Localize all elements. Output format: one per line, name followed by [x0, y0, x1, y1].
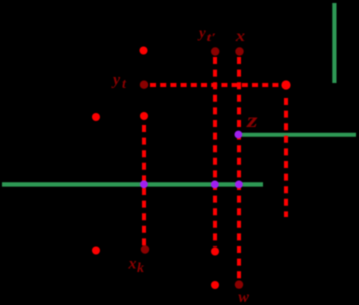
node: red dot bottom of y_t' column [211, 248, 219, 256]
node: red dot bottom left [92, 247, 100, 255]
svg-text:y: y [197, 26, 206, 42]
svg-text:y: y [111, 72, 121, 89]
node: red dot right end of dashed horizontal [281, 80, 290, 89]
red dashed vertical line through x and w [237, 57, 241, 280]
node y_t' : dark red dot [211, 47, 219, 55]
node: red dot top left column [140, 47, 148, 55]
node x : dark red dot [235, 47, 243, 55]
green line: main horizontal hyperplane [2, 182, 263, 186]
red dashed vertical line through x_k [142, 125, 146, 246]
node z : purple dot [235, 131, 243, 139]
node: red dot left [92, 113, 100, 121]
node: red dot lower isolated [211, 281, 219, 289]
node x_k : dark red dot [141, 245, 149, 253]
green line: horizontal through z [242, 133, 357, 137]
node: purple dot x_k on hyperplane [140, 180, 148, 188]
node: purple dot x on hyperplane [235, 181, 243, 189]
svg-text:t′: t′ [207, 30, 217, 44]
svg-text:w: w [238, 289, 249, 305]
svg-text:x: x [235, 28, 245, 45]
node: red dot above purple on x_k column [140, 112, 148, 120]
node w : dark red dot [235, 280, 243, 288]
green line: vertical top right [332, 3, 336, 83]
red dashed horizontal line through y_t [150, 83, 280, 87]
svg-text:x: x [128, 256, 137, 273]
svg-text:z: z [246, 110, 258, 132]
svg-text:k: k [137, 261, 144, 276]
node y_t : dark red dot [140, 81, 148, 89]
red dashed vertical line through y_t' [213, 57, 217, 247]
node: purple dot y_t' on hyperplane [211, 181, 219, 189]
red dashed vertical line rightmost [284, 98, 288, 217]
